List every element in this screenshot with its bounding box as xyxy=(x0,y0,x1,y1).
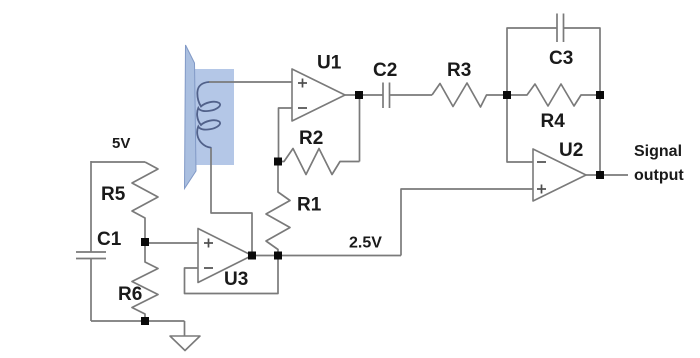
capacitor C2 xyxy=(383,83,390,109)
svg-text:C2: C2 xyxy=(373,60,397,81)
svg-text:R6: R6 xyxy=(118,284,142,305)
svg-text:C1: C1 xyxy=(97,229,122,250)
resistor R1 xyxy=(266,162,290,256)
wire C2 to R3 xyxy=(390,94,433,96)
svg-text:5V: 5V xyxy=(112,135,130,152)
node R5/R6/U3+ junction xyxy=(141,238,149,246)
svg-text:U3: U3 xyxy=(224,269,248,290)
wire 2.5V riser to U2 plus xyxy=(401,189,533,256)
node R2/R1/U1- junction xyxy=(274,158,282,166)
wire junction to U2 minus xyxy=(507,95,533,162)
op-amp U3 xyxy=(198,229,252,283)
wire R2 to U1 output xyxy=(359,95,361,162)
node U2 output xyxy=(596,171,604,179)
node U1 output xyxy=(355,91,363,99)
node U3 output xyxy=(248,252,256,260)
svg-text:R3: R3 xyxy=(447,60,471,81)
wire C3 to right junction xyxy=(564,28,601,95)
svg-text:2.5V: 2.5V xyxy=(349,235,382,252)
label Signal output xyxy=(634,143,684,184)
wire node to U3 plus input xyxy=(145,242,198,244)
capacitor C1 xyxy=(76,252,106,259)
wire left branch lower xyxy=(90,259,92,322)
wire U2 output xyxy=(586,174,628,176)
U2 minus sign xyxy=(537,161,546,163)
U1 minus sign xyxy=(298,107,307,109)
wire U1 output to C2 xyxy=(345,94,383,96)
node C3/R4 right junction xyxy=(596,91,604,99)
resistor R4 xyxy=(507,84,600,106)
wire U3 output xyxy=(252,255,401,257)
wire feedback loop top xyxy=(507,28,557,95)
U2 plus sign xyxy=(537,185,546,194)
svg-text:R2: R2 xyxy=(299,128,323,149)
U3 minus sign xyxy=(204,267,213,269)
wire mic top to U1 plus xyxy=(209,81,292,83)
node R1 bottom junction xyxy=(274,252,282,260)
resistor R2 xyxy=(278,149,360,175)
resistor R3 xyxy=(432,83,507,107)
svg-text:output: output xyxy=(634,167,684,184)
capacitor C3 xyxy=(557,14,564,43)
svg-text:U1: U1 xyxy=(317,53,342,74)
svg-text:R5: R5 xyxy=(101,184,126,205)
microphone front panel xyxy=(185,45,197,189)
svg-text:U2: U2 xyxy=(559,140,583,161)
wire right junction down to output node xyxy=(599,95,601,175)
resistor R6 xyxy=(132,242,158,321)
microphone body rectangle xyxy=(194,69,234,165)
svg-text:Signal: Signal xyxy=(634,143,682,160)
op-amp U1 xyxy=(292,69,345,121)
microphone coil xyxy=(197,82,220,148)
node R3/R4/C3 left junction xyxy=(503,91,511,99)
wire ground lead xyxy=(184,321,186,336)
wire U1 minus input xyxy=(279,108,293,162)
svg-text:R1: R1 xyxy=(297,195,322,216)
resistor R5 xyxy=(132,162,158,242)
U3 plus sign xyxy=(204,239,213,248)
wire bottom rail xyxy=(91,320,185,322)
ground xyxy=(170,336,200,351)
wire left branch upper xyxy=(90,161,92,252)
wire U3 feedback loop xyxy=(185,256,279,294)
svg-text:C3: C3 xyxy=(549,48,573,69)
node bottom rail junction xyxy=(141,317,149,325)
svg-text:R4: R4 xyxy=(541,111,566,132)
wire 5V rail to R5 xyxy=(91,161,145,163)
U1 plus sign xyxy=(298,79,307,88)
wire mic bottom to U3 output node xyxy=(211,148,252,255)
op-amp U2 xyxy=(533,149,586,201)
